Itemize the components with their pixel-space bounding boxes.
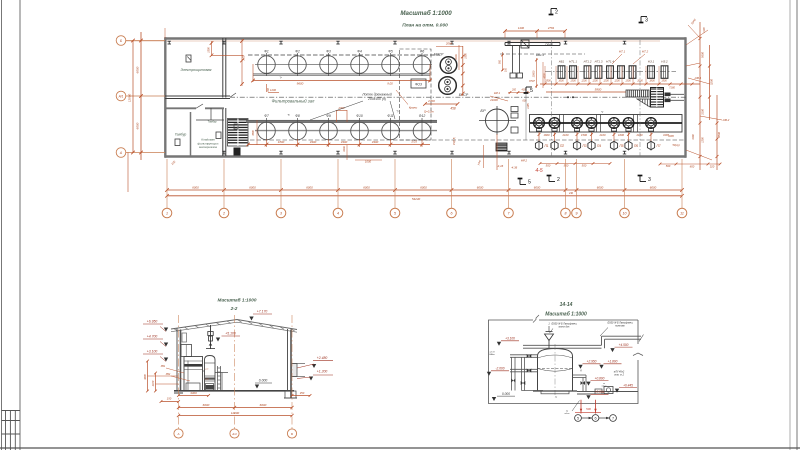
svg-text:3,03: 3,03 — [411, 140, 417, 144]
svg-text:НВ.1: НВ.1 — [695, 76, 702, 80]
svg-text:9: 9 — [576, 211, 578, 215]
svg-text:Ф3: Ф3 — [326, 49, 331, 53]
svg-text:6000: 6000 — [249, 185, 256, 189]
svg-text:500: 500 — [586, 407, 591, 411]
svg-text:1200: 1200 — [270, 88, 276, 92]
svg-text:100: 100 — [505, 67, 508, 72]
svg-text:458: 458 — [450, 107, 456, 111]
svg-text:+2.950: +2.950 — [587, 360, 597, 364]
svg-text:500: 500 — [499, 59, 502, 64]
svg-text:Ф7: Ф7 — [264, 114, 269, 118]
svg-text:А: А — [176, 432, 179, 436]
svg-text:1: 1 — [166, 211, 168, 215]
svg-text:Ф1: Ф1 — [264, 49, 269, 53]
svg-text:2000: 2000 — [455, 54, 458, 61]
svg-text:3165: 3165 — [668, 134, 674, 138]
svg-text:Б: Б — [291, 432, 293, 436]
svg-text:НР.1: НР.1 — [494, 91, 501, 95]
svg-text:6000: 6000 — [477, 185, 484, 189]
svg-text:БПСР: БПСР — [434, 53, 444, 57]
svg-text:материалов: материалов — [199, 145, 217, 149]
svg-text:отв. т.2: отв. т.2 — [614, 373, 625, 376]
svg-text:НР.2: НР.2 — [521, 159, 528, 163]
svg-text:4: 4 — [337, 211, 339, 215]
svg-text:5: 5 — [577, 417, 579, 421]
svg-text:НБ1: НБ1 — [559, 60, 565, 64]
svg-text:50(vр): 50(vр) — [672, 144, 679, 147]
svg-text:11: 11 — [680, 211, 684, 215]
svg-text:П6: П6 — [634, 144, 638, 148]
svg-text:1500: 1500 — [465, 53, 468, 59]
svg-text:Ф4: Ф4 — [357, 49, 362, 53]
svg-text:6000: 6000 — [420, 185, 427, 189]
svg-text:10: 10 — [623, 211, 627, 215]
svg-text:2064: 2064 — [445, 42, 453, 46]
svg-text:1200: 1200 — [702, 137, 705, 143]
svg-text:П1: П1 — [544, 144, 548, 148]
svg-text:1500: 1500 — [208, 47, 211, 53]
svg-text:6000: 6000 — [260, 403, 267, 407]
svg-text:7180: 7180 — [669, 86, 675, 90]
svg-text:+3.100: +3.100 — [147, 350, 158, 354]
svg-text:2: 2 — [222, 211, 225, 215]
svg-text:1300: 1300 — [570, 80, 576, 83]
svg-text:Д: Д — [579, 370, 582, 372]
svg-text:1500: 1500 — [581, 133, 587, 137]
svg-text:П7: П7 — [656, 144, 660, 148]
svg-text:+4.700: +4.700 — [147, 335, 158, 339]
svg-text:800: 800 — [690, 165, 695, 169]
svg-text:-4,36: -4,36 — [511, 166, 518, 170]
svg-text:1200: 1200 — [581, 80, 587, 83]
svg-text:1500: 1500 — [661, 80, 667, 83]
svg-text:1400: 1400 — [518, 26, 525, 30]
svg-text:+5.100: +5.100 — [225, 332, 236, 336]
svg-text:+3.100: +3.100 — [505, 337, 515, 341]
svg-text:1130: 1130 — [703, 27, 706, 33]
svg-text:3300: 3300 — [341, 140, 348, 144]
svg-text:5: 5 — [528, 180, 531, 186]
svg-text:1600: 1600 — [544, 133, 550, 137]
svg-text:500: 500 — [564, 164, 569, 168]
svg-text:1300: 1300 — [625, 80, 631, 83]
svg-text:БР: БР — [480, 108, 486, 113]
svg-text:400: 400 — [522, 89, 527, 92]
svg-text:+0.445: +0.445 — [623, 383, 633, 387]
svg-text:0.000: 0.000 — [259, 379, 268, 383]
svg-text:2100: 2100 — [636, 133, 643, 137]
svg-text:320: 320 — [710, 165, 715, 169]
svg-text:Б: Б — [120, 39, 122, 43]
svg-text:Электрощитовая: Электрощитовая — [181, 68, 212, 72]
svg-text:План на отм. 0.000: План на отм. 0.000 — [402, 23, 448, 29]
svg-text:+7.170: +7.170 — [257, 310, 268, 314]
svg-text:15(0,5): 15(0,5) — [453, 137, 456, 145]
svg-text:21600: 21600 — [489, 98, 498, 102]
svg-text:Ф5: Ф5 — [388, 49, 393, 53]
svg-text:8: 8 — [565, 211, 567, 215]
svg-text:НТ1.2: НТ1.2 — [584, 60, 592, 64]
svg-text:Фильтровальный зал: Фильтровальный зал — [272, 99, 315, 104]
svg-text:НВ.2: НВ.2 — [723, 118, 730, 122]
svg-text:54240: 54240 — [412, 197, 421, 201]
svg-text:500: 500 — [546, 164, 551, 168]
svg-text:5: 5 — [394, 211, 396, 215]
svg-text:РБ1: РБ1 — [161, 365, 166, 368]
svg-text:3: 3 — [648, 177, 651, 183]
svg-text:3300: 3300 — [310, 140, 317, 144]
svg-text:ФОЗ: ФОЗ — [415, 83, 422, 87]
svg-text:6000: 6000 — [534, 185, 541, 189]
svg-text:об.кг: об.кг — [602, 385, 607, 387]
svg-text:5: 5 — [530, 88, 533, 94]
svg-text:9600: 9600 — [297, 82, 304, 86]
svg-text:6: 6 — [451, 211, 453, 215]
svg-text:3100: 3100 — [701, 109, 705, 115]
svg-text:НВкл: НВкл — [489, 354, 495, 356]
svg-text:1200: 1200 — [603, 80, 609, 83]
svg-text:1800: 1800 — [649, 80, 655, 83]
svg-text:2,05: 2,05 — [243, 55, 246, 61]
svg-text:Масштаб 1:1000: Масштаб 1:1000 — [218, 297, 257, 303]
svg-text:200х100 (h): 200х100 (h) — [367, 97, 386, 101]
svg-text:1500: 1500 — [545, 80, 551, 83]
svg-text:2: 2 — [557, 177, 560, 183]
svg-text:А/1: А/1 — [118, 94, 124, 98]
svg-text:+6.950: +6.950 — [147, 320, 158, 324]
svg-text:+1.200: +1.200 — [317, 369, 328, 373]
svg-text:200: 200 — [511, 89, 517, 92]
svg-text:А: А — [119, 151, 122, 155]
svg-text:Масштаб 1:1000: Масштаб 1:1000 — [400, 10, 452, 17]
svg-text:0.000: 0.000 — [502, 392, 510, 396]
svg-text:3800: 3800 — [717, 132, 721, 138]
svg-text:Масштаб 1:1000: Масштаб 1:1000 — [545, 311, 587, 318]
svg-text:НТ.2: НТ.2 — [642, 50, 649, 54]
svg-text:9500: 9500 — [701, 52, 705, 58]
svg-text:Ф6: Ф6 — [420, 49, 425, 53]
svg-text:НЗ.1: НЗ.1 — [648, 60, 655, 64]
svg-text:1200: 1200 — [592, 80, 598, 83]
svg-text:6000: 6000 — [203, 403, 210, 407]
svg-text:-4,16: -4,16 — [497, 164, 504, 168]
svg-text:1185: 1185 — [527, 103, 530, 109]
svg-text:3600: 3600 — [144, 374, 147, 380]
svg-text:2784: 2784 — [547, 26, 555, 30]
svg-text:1200: 1200 — [614, 80, 620, 83]
svg-text:8797: 8797 — [529, 79, 535, 83]
svg-text:500: 500 — [582, 164, 587, 168]
svg-text:240: 240 — [568, 192, 574, 195]
svg-text:12000: 12000 — [231, 411, 240, 415]
svg-text:Ф2: Ф2 — [295, 49, 300, 53]
svg-text:+0.054: +0.054 — [595, 390, 605, 394]
svg-text:Ф9: Ф9 — [326, 114, 331, 118]
svg-text:РБ2: РБ2 — [166, 373, 171, 376]
svg-text:6000: 6000 — [136, 122, 140, 129]
svg-text:6000: 6000 — [192, 185, 199, 189]
svg-text:5800: 5800 — [595, 88, 602, 92]
svg-text:2-2: 2-2 — [230, 306, 238, 311]
svg-text:+1.800: +1.800 — [608, 360, 618, 364]
svg-text:5200: 5200 — [710, 79, 714, 85]
svg-text:3500: 3500 — [252, 130, 255, 136]
svg-text:6: 6 — [594, 417, 596, 421]
svg-text:НБ1.2: НБ1.2 — [536, 53, 545, 57]
svg-text:БРСР: БРСР — [459, 93, 469, 97]
svg-text:6000: 6000 — [363, 185, 370, 189]
svg-text:Ф8: Ф8 — [295, 114, 300, 118]
svg-text:монт.блк: монт.блк — [559, 325, 571, 328]
svg-text:1800: 1800 — [278, 140, 285, 144]
svg-text:6000: 6000 — [597, 185, 604, 189]
svg-text:-2.000: -2.000 — [495, 367, 504, 371]
svg-text:П5: П5 — [619, 144, 623, 148]
svg-text:12000: 12000 — [128, 93, 132, 102]
svg-text:6000: 6000 — [306, 185, 313, 189]
svg-text:2700: 2700 — [427, 99, 435, 103]
svg-text:3: 3 — [280, 211, 282, 215]
svg-text:3160: 3160 — [692, 134, 695, 140]
svg-text:2: 2 — [555, 10, 558, 16]
svg-text:3300: 3300 — [372, 140, 379, 144]
svg-text:НТ1.3: НТ1.3 — [595, 60, 603, 64]
svg-text:Ф12: Ф12 — [419, 114, 426, 118]
svg-text:Q=3,2т: Q=3,2т — [424, 110, 435, 114]
svg-text:3300: 3300 — [342, 146, 346, 152]
svg-text:+2.480: +2.480 — [317, 356, 328, 360]
svg-text:П2: П2 — [560, 144, 564, 148]
svg-text:6000: 6000 — [136, 66, 140, 73]
svg-text:150: 150 — [167, 397, 172, 401]
svg-text:14-14: 14-14 — [560, 302, 573, 308]
svg-text:+4.500: +4.500 — [619, 343, 629, 347]
svg-text:НТ.1: НТ.1 — [619, 50, 626, 54]
svg-text:НЗ.2: НЗ.2 — [661, 60, 668, 64]
svg-text:4-5: 4-5 — [535, 168, 542, 174]
svg-text:Ф11: Ф11 — [387, 114, 393, 118]
svg-text:350: 350 — [300, 391, 305, 395]
svg-text:+0.800: +0.800 — [595, 376, 605, 380]
svg-text:Краны: Краны — [409, 106, 417, 110]
svg-text:НТ1.1: НТ1.1 — [569, 60, 577, 64]
svg-text:А/1: А/1 — [231, 432, 237, 436]
svg-text:1600: 1600 — [558, 80, 564, 83]
svg-text:П4: П4 — [597, 144, 601, 148]
svg-text:об.кг: об.кг — [564, 413, 570, 415]
svg-text:Тамбур: Тамбур — [208, 120, 217, 124]
svg-text:10000: 10000 — [533, 70, 536, 77]
svg-text:1600: 1600 — [618, 133, 624, 137]
svg-text:600: 600 — [523, 100, 528, 103]
svg-text:Тамбур: Тамбур — [175, 133, 187, 137]
svg-text:3300: 3300 — [190, 391, 197, 395]
svg-text:монтаж: монтаж — [615, 325, 625, 328]
svg-text:3: 3 — [645, 18, 648, 24]
svg-text:7: 7 — [612, 417, 614, 421]
svg-text:9,00: 9,00 — [387, 82, 393, 86]
svg-text:П3: П3 — [582, 144, 586, 148]
svg-text:500: 500 — [666, 164, 671, 168]
svg-text:2100: 2100 — [152, 380, 155, 387]
svg-text:Ф10: Ф10 — [356, 114, 363, 118]
svg-text:2100: 2100 — [599, 133, 606, 137]
svg-text:6000: 6000 — [650, 185, 657, 189]
svg-text:2100: 2100 — [562, 133, 569, 137]
